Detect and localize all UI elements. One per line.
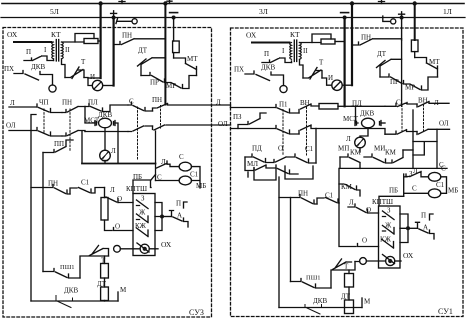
contact Л into МБ	[406, 172, 428, 177]
vertical row2 to row3	[315, 129, 317, 164]
svg-text:ОХ: ОХ	[246, 31, 257, 40]
resistor top right box	[321, 39, 335, 44]
vertical x437 from ОЛ	[436, 129, 438, 168]
contact ПХ-ДКВ	[14, 71, 53, 86]
wire x403 to x413	[403, 149, 413, 151]
wire to indicator right	[366, 260, 385, 262]
rail right B2 x352	[351, 4, 353, 86]
svg-text:II: II	[65, 46, 70, 54]
junction dot П-А right	[406, 226, 410, 230]
svg-text:ПД: ПД	[252, 145, 262, 153]
transformer КТ right coil II	[62, 42, 64, 59]
wire ОХ to transformer right	[252, 42, 290, 44]
minus bar x173	[170, 12, 178, 14]
contact ПН	[114, 39, 166, 45]
wire М stub	[117, 292, 119, 301]
wire Т to И right	[322, 78, 332, 85]
svg-text:КТ: КТ	[290, 30, 300, 39]
svg-text:1Л: 1Л	[443, 7, 452, 16]
svg-text:Л: Л	[349, 199, 354, 207]
wire Т to И meter	[84, 78, 92, 86]
contact П	[24, 56, 54, 61]
wire secondary top to resistor right	[300, 42, 322, 44]
motor МБ ellipse 2	[179, 176, 191, 185]
contact ЧП upper	[37, 104, 62, 113]
vertical into resistor	[104, 188, 106, 198]
svg-text:С1: С1	[81, 179, 90, 187]
svg-text:МБ: МБ	[448, 187, 458, 195]
contact ДКВ bottom	[56, 296, 73, 308]
svg-text:Л: Л	[110, 186, 115, 194]
motor ДКВ ellipse left	[99, 118, 112, 128]
svg-text:ЧП: ЧП	[39, 99, 49, 107]
rail right A2 x343	[344, 18, 346, 107]
wire ПБ right	[379, 196, 404, 206]
svg-text:ДКВ: ДКВ	[313, 297, 327, 305]
wire resistor to rail	[335, 41, 345, 43]
contact С1 lower right	[317, 198, 339, 205]
svg-text:О: О	[278, 145, 283, 153]
МБ loop right	[192, 167, 201, 188]
wire from indicator right2	[395, 260, 401, 262]
svg-text:I: I	[44, 46, 47, 54]
Т bypass contact right	[333, 259, 360, 270]
vertical x43 lower	[42, 188, 44, 272]
loop right of resistor	[174, 58, 186, 64]
transformer core right	[294, 40, 296, 62]
svg-text:КТ: КТ	[51, 30, 61, 39]
svg-text:М: М	[120, 286, 127, 294]
terminal circle right	[280, 85, 287, 92]
contact ПР-МР chain	[141, 73, 197, 89]
motor МБ ellipse 2 right	[428, 189, 440, 198]
svg-text:3Л: 3Л	[259, 7, 268, 16]
contact ПЗ branch	[238, 113, 266, 129]
rail left C x165.4	[164, 4, 166, 105]
contact ПН lower	[62, 131, 85, 137]
motor ДКВ feed	[85, 107, 95, 124]
resistor horizontal row1	[319, 104, 338, 110]
wire secondary bottom to Т	[62, 59, 66, 78]
contact Т blade with slash	[65, 67, 84, 79]
svg-text:М: М	[364, 298, 371, 306]
contact ЧП lower	[37, 128, 62, 137]
svg-text:ДТ: ДТ	[377, 50, 387, 58]
svg-text:ПХ: ПХ	[4, 65, 14, 73]
svg-text:КПТШ: КПТШ	[372, 198, 393, 206]
svg-text:ОХ: ОХ	[403, 251, 414, 260]
svg-text:Л: Л	[111, 147, 116, 155]
vertical left loop x31	[31, 115, 36, 302]
contact ПР-МР chain right	[380, 74, 438, 90]
wire И meter to rail	[342, 84, 352, 86]
wire motor to lamp right	[360, 128, 368, 137]
transformer КТ right: left coil I	[290, 43, 292, 60]
switch symbol left (tick-line-circle)	[116, 19, 132, 24]
Т bypass loop right	[331, 262, 355, 289]
svg-text:П: П	[264, 50, 269, 58]
contact ВН upper mid	[299, 104, 319, 113]
contact ДТ with arrow	[138, 58, 166, 76]
svg-text:С1: С1	[190, 171, 199, 179]
svg-text:МП: МП	[338, 145, 349, 153]
svg-text:МБ: МБ	[196, 182, 206, 190]
motor МБ ellipse 1	[179, 162, 191, 171]
contact ПШ1	[43, 269, 80, 279]
contact ВН right lower	[417, 129, 450, 134]
contact С right lower	[385, 130, 417, 135]
switch symbol right	[383, 16, 390, 21]
svg-text:СУ1: СУ1	[438, 307, 453, 316]
wire bottom mid y163	[82, 163, 156, 165]
tick bus1 x168	[167, 0, 172, 4]
svg-text:З: З	[387, 207, 391, 215]
contact ПН right	[352, 39, 402, 45]
svg-text:ДКВ: ДКВ	[261, 64, 275, 72]
contact МТ right	[427, 63, 438, 77]
tick bus1 x381	[379, 0, 385, 4]
svg-text:Т: Т	[319, 59, 324, 67]
Т bypass contact	[90, 246, 109, 257]
wire secondary top to resistor	[62, 41, 85, 43]
svg-text:И: И	[90, 73, 95, 81]
svg-text:5Л: 5Л	[50, 7, 59, 16]
box КПТШ	[133, 194, 155, 256]
wire motor right	[115, 123, 118, 163]
rail right D2 x414.7	[414, 4, 416, 41]
bypass loop over resistor	[75, 34, 94, 43]
resistor П left column	[101, 198, 108, 221]
svg-text:ПШ1: ПШ1	[60, 264, 75, 271]
svg-text:ДКВ: ДКВ	[31, 63, 45, 71]
contact С lower	[128, 126, 153, 132]
svg-text:МЛ: МЛ	[247, 160, 258, 168]
svg-text:ПХ: ПХ	[234, 66, 244, 74]
svg-text:ПЗ: ПЗ	[233, 113, 242, 121]
svg-text:ОЛ: ОЛ	[6, 122, 16, 130]
verticals from row3 down	[247, 172, 249, 177]
svg-text:С1: С1	[305, 145, 314, 153]
wire to indicator	[120, 248, 140, 250]
svg-text:Л: Л	[10, 99, 15, 107]
dashed link ПН	[69, 109, 71, 152]
contact П-А bracket	[170, 202, 189, 227]
contact ДТ right	[377, 59, 402, 77]
dashed link П1	[282, 110, 284, 156]
wire from indicator right	[149, 248, 158, 250]
rail C2 continue	[401, 40, 403, 106]
wire ОХ to transformer	[14, 41, 52, 43]
terminal circle КПТШ row	[114, 245, 121, 252]
indicator ОХ right	[386, 256, 395, 265]
svg-text:П: П	[26, 48, 31, 56]
wire lamp down	[359, 148, 361, 152]
wire to П-А	[162, 216, 172, 218]
tick bus1 x122	[119, 0, 125, 4]
meter И circle left	[92, 80, 102, 90]
МБ loop right side	[441, 177, 447, 194]
bus line 5Л/3Л top	[2, 3, 464, 5]
contact Л	[157, 161, 180, 168]
svg-text:А: А	[423, 224, 428, 232]
motor brushes right	[355, 121, 381, 126]
dashed box СУ1	[231, 28, 464, 317]
svg-text:ОЛ: ОЛ	[439, 120, 449, 128]
rail left A x100.6	[99, 4, 101, 79]
wire to П-А right	[408, 227, 418, 229]
loop right of resistor D2	[415, 58, 427, 64]
contact ВН lower mid	[299, 125, 316, 134]
svg-text:ПП: ПП	[54, 140, 64, 148]
КПТШ right connections	[155, 203, 162, 231]
svg-text:С1: С1	[436, 181, 445, 189]
transformer КТ left coil I	[52, 42, 54, 59]
junction dot П-А	[160, 215, 164, 219]
contact П right	[262, 58, 292, 63]
wire row1 into box	[231, 107, 277, 109]
contact ВН lower	[153, 125, 212, 130]
indicator ОХ double circle	[140, 244, 149, 253]
motor brushes	[95, 121, 115, 126]
blade lower	[137, 243, 149, 252]
dashed box СУ3	[3, 28, 212, 318]
wire bottom right y307	[279, 307, 362, 309]
resistor Т	[101, 264, 109, 279]
contact Л lower right	[348, 204, 379, 213]
wire motor down to lamp	[104, 128, 106, 151]
resistor ДТ right	[345, 300, 354, 314]
resistor on rail D	[173, 41, 180, 53]
wire row2 into box	[231, 128, 277, 130]
contact ПН y187	[31, 185, 70, 195]
sub wires below row3	[254, 166, 313, 180]
svg-text:З: З	[141, 195, 145, 203]
contact ПШ1 right	[291, 279, 332, 289]
rail left D x173.6	[173, 18, 175, 42]
svg-text:О: О	[362, 237, 367, 245]
wire lamp to bottom	[104, 161, 106, 163]
Т bypass loop	[80, 256, 109, 278]
svg-text:ПБ: ПБ	[389, 187, 398, 195]
svg-text:О: О	[115, 223, 120, 231]
КПТШ right side connections	[400, 214, 408, 243]
wire Л row start	[9, 106, 37, 108]
dashed link С	[137, 107, 139, 160]
svg-text:МТ: МТ	[187, 55, 198, 63]
svg-text:Л: Л	[346, 135, 351, 143]
svg-text:Т: Т	[81, 58, 86, 66]
contact ПХ-ДКВ right	[245, 71, 284, 86]
svg-text:ДКВ: ДКВ	[64, 287, 78, 295]
dashed link ВН mid	[306, 107, 308, 155]
blade lower right	[383, 255, 395, 264]
bypass loop right	[312, 34, 331, 43]
contact ДКВ bottom right	[305, 305, 322, 315]
contact Т right blade	[303, 68, 322, 80]
contact ПЛ	[85, 104, 128, 112]
svg-text:П: П	[421, 212, 426, 220]
wire И meter to rail B	[103, 85, 114, 87]
svg-text:О: О	[366, 206, 371, 214]
vertical left loop right box x279	[278, 177, 280, 308]
svg-text:С: С	[179, 153, 184, 161]
transformer КТ core	[56, 40, 58, 62]
svg-text:П: П	[176, 200, 181, 208]
minus bar x343	[341, 12, 349, 14]
rail right C2 x401.6	[401, 18, 403, 41]
dashed link ВН	[160, 106, 162, 129]
svg-text:ДТ: ДТ	[138, 47, 148, 55]
svg-text:ПН: ПН	[152, 96, 162, 104]
svg-text:И: И	[328, 74, 333, 82]
rail left B x113.6	[112, 18, 114, 86]
wire О upper into box	[118, 202, 133, 204]
svg-text:ПН: ПН	[122, 32, 132, 40]
node dot bus2 x113 plus	[112, 16, 116, 20]
wire row1 over motor	[352, 105, 386, 107]
svg-text:ПН: ПН	[62, 99, 72, 107]
contact row4	[245, 157, 298, 174]
resistor Т right	[345, 274, 354, 288]
svg-text:ПШ1: ПШ1	[306, 275, 321, 282]
contact row3	[245, 154, 316, 163]
wire ОЛ row start	[9, 130, 37, 132]
vertical x413	[412, 110, 414, 168]
svg-text:I: I	[282, 47, 285, 55]
svg-text:П1: П1	[279, 101, 288, 109]
resistor ДТ	[101, 287, 109, 301]
svg-text:С: С	[412, 185, 417, 193]
node dot bus1 x352	[350, 1, 354, 5]
contact КМ to Л	[339, 184, 360, 196]
svg-text:ОХ: ОХ	[7, 30, 18, 39]
transformer right coil II	[300, 43, 302, 60]
svg-text:ДТ: ДТ	[341, 293, 351, 301]
node dot bus2 x401 plus	[400, 16, 404, 20]
contact ПН upper	[62, 107, 85, 113]
vertical ОЛ contact down to МБ loop	[155, 131, 157, 181]
contact С1 y187	[70, 188, 105, 195]
box КПТШ right	[379, 206, 401, 268]
wire primary bottom	[53, 59, 55, 61]
contact П1 lower	[276, 126, 299, 135]
wire М stub right	[361, 298, 363, 308]
svg-text:ДКВ: ДКВ	[360, 110, 374, 118]
svg-text:II: II	[303, 47, 308, 55]
motor МСТ-ДКВ ellipse right	[362, 118, 375, 128]
wire rail A bottom to Т node	[88, 77, 101, 79]
svg-text:ОХ: ОХ	[161, 240, 172, 249]
wire row2 across	[316, 129, 385, 135]
wire resistor to motor junction	[338, 105, 352, 107]
wire ОЛ row continue	[85, 131, 128, 133]
dashed link ЧП	[43, 109, 45, 133]
svg-text:Ж: Ж	[139, 209, 146, 217]
svg-text:О: О	[117, 195, 122, 203]
terminal circle right box	[360, 258, 367, 265]
node dot bus1 x165	[163, 1, 167, 5]
lamp Л circle	[100, 150, 111, 161]
junction tick on y163	[103, 160, 108, 162]
contact ВН right upper	[417, 102, 449, 108]
МБ loop left rail right box	[404, 174, 429, 196]
svg-text:КПТШ: КПТШ	[126, 185, 147, 193]
resistor R top left	[84, 39, 98, 44]
bus line lower	[1, 17, 465, 19]
svg-text:СУ3: СУ3	[189, 308, 204, 317]
meter И circle right	[332, 80, 342, 90]
vertical x290.5 right box	[290, 198, 292, 282]
node dot bus1 x100	[98, 1, 102, 5]
staircase С link	[413, 142, 437, 156]
svg-text:А: А	[177, 212, 182, 220]
contact МТ	[186, 64, 197, 76]
contact П1 upper	[276, 105, 299, 114]
svg-text:МИ: МИ	[374, 145, 385, 153]
node dot bus1 x415	[413, 1, 417, 5]
wire resistor to rail A	[98, 40, 101, 42]
vertical left x43	[42, 153, 44, 188]
motor МБ ellipse 1 right	[428, 172, 440, 181]
wire motor right brush	[381, 122, 385, 124]
contact КМ blades	[340, 150, 403, 168]
wire bottom y301	[31, 300, 118, 302]
dashed link С right	[401, 105, 403, 131]
motor feed vertical	[356, 106, 359, 123]
dashed link ВН right2	[423, 105, 425, 132]
svg-text:С: С	[441, 165, 446, 173]
wire secondary bottom to Т right	[300, 60, 304, 79]
terminal circle left	[49, 85, 56, 92]
svg-text:ОЛ: ОЛ	[218, 120, 228, 128]
svg-text:КМ: КМ	[385, 149, 397, 157]
contact ПН lower right	[279, 195, 317, 205]
svg-text:Т: Т	[344, 263, 349, 271]
vertical x82 from ОЛ row	[81, 132, 83, 164]
contact П-А bracket right	[416, 214, 435, 239]
resistor on rail D2	[411, 40, 418, 52]
vertical x339 from КМ row	[338, 168, 340, 203]
svg-text:КМ: КМ	[350, 149, 362, 157]
wire КМ bottom	[340, 157, 447, 168]
